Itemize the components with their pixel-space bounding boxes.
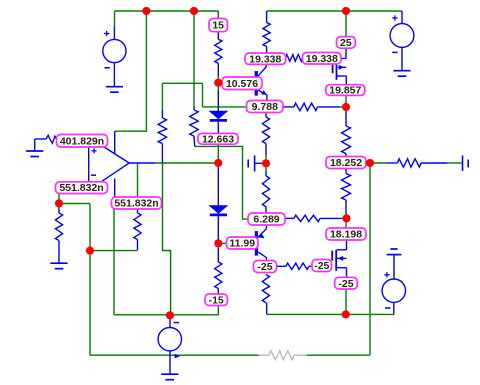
ground V1 bbox=[106, 86, 123, 88]
wire -25 rail right horizontal bbox=[267, 313, 394, 315]
resistor R below 9.788 bbox=[265, 113, 267, 118]
node 6.289 label bbox=[248, 213, 285, 225]
wire -15 rail left horizontal bbox=[114, 314, 218, 316]
wire bridge above op-amp bbox=[162, 82, 202, 84]
node 25 label bbox=[337, 37, 356, 49]
node dot 9 bbox=[342, 214, 350, 222]
svg-text:-25: -25 bbox=[257, 261, 272, 273]
node 19.857 label bbox=[326, 85, 365, 96]
resistor R x=162 (op-amp area) bbox=[161, 110, 163, 118]
node 19.338 label 1 bbox=[245, 53, 286, 64]
op-amp V+ pin bbox=[114, 131, 116, 153]
voltage source V3 bottom-center bbox=[169, 315, 171, 327]
svg-text:18.198: 18.198 bbox=[330, 229, 362, 241]
wire op-amp output bbox=[155, 162, 218, 164]
V4 plus bbox=[384, 274, 389, 276]
wire node A to x=90 bbox=[59, 203, 90, 205]
node dot 2 bbox=[190, 7, 198, 15]
node 9.788 label bbox=[247, 101, 284, 113]
resistor R below -25 #1 bbox=[262, 275, 269, 303]
ground V2 bbox=[393, 70, 410, 72]
wire bottom horizontal right part bbox=[307, 354, 370, 356]
transistor Q2 (PNP mirrored) bbox=[265, 225, 267, 229]
svg-text:401.829n: 401.829n bbox=[60, 135, 104, 147]
wire stub resistor right to node dot x=346 y=107 bbox=[340, 106, 346, 108]
op-amp U1 bbox=[102, 145, 130, 181]
node dot 10 bbox=[55, 199, 63, 207]
resistor R input gnd x=59 bbox=[58, 203, 60, 213]
wire node 10.576 to Q1 base bbox=[218, 82, 254, 84]
svg-text:15: 15 bbox=[212, 20, 224, 32]
node dot 3 bbox=[342, 7, 350, 15]
wire stub resistor to node 18.252 right bbox=[370, 162, 387, 164]
node -15 label bbox=[205, 294, 228, 306]
wire output node down x=137.5 bbox=[137, 163, 139, 197]
ground R input bbox=[50, 262, 67, 264]
resistor R 25-col upper (between 19.857 node and 18.252) bbox=[345, 111, 347, 126]
resistor R column x=346 upper bbox=[345, 48, 347, 58]
wire x=90 vertical bbox=[89, 204, 91, 356]
svg-text:551.832n: 551.832n bbox=[114, 198, 158, 210]
ground V4 (flipped) bbox=[390, 248, 397, 250]
horizontal resistor 9.788 row bbox=[283, 106, 294, 108]
wire stub below -25 to rail bbox=[345, 289, 347, 314]
wire R bottom lead x=194 to 6.289 column bbox=[195, 146, 249, 219]
wire rail drop x=194 bbox=[193, 11, 195, 107]
svg-text:-25: -25 bbox=[338, 278, 353, 290]
svg-text:-25: -25 bbox=[314, 260, 329, 272]
svg-text:25: 25 bbox=[340, 37, 352, 49]
resistor gray (disabled) bottom bbox=[259, 354, 269, 356]
resistor R x=194 bbox=[193, 107, 195, 111]
wire inverting node down to node A bbox=[58, 194, 60, 204]
horizontal resistor 6.289 row bbox=[285, 217, 294, 219]
node 401.829n label (+in) bbox=[57, 135, 108, 148]
node dot 11 bbox=[86, 247, 94, 255]
node dot 5 bbox=[342, 103, 350, 111]
node 18.252 label bbox=[326, 157, 366, 169]
svg-text:19.857: 19.857 bbox=[329, 85, 361, 97]
svg-text:6.289: 6.289 bbox=[253, 214, 279, 226]
wire stub cap node bbox=[265, 156, 267, 160]
V3 polarity arrow bbox=[175, 354, 181, 359]
diode D2 bbox=[217, 168, 219, 206]
wire -15 node stubs bbox=[217, 243, 219, 248]
battery C1 left (node 18.252 cap) bbox=[247, 160, 249, 168]
wire to node 9.788 bbox=[203, 106, 248, 108]
wire x=370 vertical to node 18.252 bbox=[369, 163, 371, 355]
node -25 label 1 bbox=[254, 261, 277, 273]
svg-text:551.832n: 551.832n bbox=[59, 182, 103, 194]
wire node 11.99 to Q2 base bbox=[218, 242, 255, 244]
wire output node down x=162.5 with jog to bottom source bbox=[163, 163, 171, 315]
op-amp minus input bbox=[91, 174, 96, 176]
wire +15 rail drop to op-amp V+ bbox=[145, 11, 147, 131]
svg-text:12.663: 12.663 bbox=[202, 133, 234, 145]
node +15 label bbox=[209, 19, 228, 32]
V4 minus bbox=[385, 307, 390, 309]
node 19.338 label 2 bbox=[303, 53, 342, 65]
transistor Q1 (NPN) bbox=[255, 71, 258, 96]
battery right edge bbox=[462, 156, 464, 172]
node 18.198 label bbox=[326, 228, 366, 240]
node dot 6 bbox=[214, 159, 222, 167]
horizontal resistor 18.252 row bbox=[387, 162, 398, 164]
node 12.663 label bbox=[198, 133, 238, 144]
wire bottom horizontal left part bbox=[90, 354, 259, 356]
node dot 8 bbox=[366, 159, 374, 167]
node 551.832n label 1 (-in) bbox=[56, 182, 108, 194]
svg-text:18.252: 18.252 bbox=[330, 157, 362, 169]
wire top rail right segment bbox=[267, 10, 402, 12]
wire op-amp V- column x=114 bbox=[113, 209, 115, 315]
voltage source V2 top-right bbox=[401, 11, 403, 24]
resistor R top x=266 bbox=[266, 11, 268, 23]
node -25 label 3 bbox=[335, 277, 358, 289]
svg-text:-15: -15 bbox=[209, 294, 224, 306]
svg-text:19.338: 19.338 bbox=[306, 53, 338, 65]
resistor R "-15" column bbox=[217, 248, 219, 262]
V1 plus bbox=[104, 33, 109, 35]
V1 minus bbox=[105, 67, 110, 69]
node dot 12 bbox=[214, 239, 222, 247]
op-amp V- pin bbox=[114, 179, 116, 198]
diode D1 bbox=[217, 90, 219, 111]
resistor R1 zigzag bbox=[215, 39, 222, 63]
ground V3 bbox=[161, 373, 178, 375]
resistor R above 6.289 bbox=[265, 171, 267, 176]
wire node B horizontal bbox=[89, 250, 137, 252]
node dot 1 bbox=[142, 7, 150, 15]
wire stub node 18.252 to dot bbox=[362, 162, 370, 164]
node dot 14 bbox=[166, 311, 174, 319]
wire +25 drop bbox=[345, 11, 347, 37]
node -25 label 2 bbox=[312, 260, 332, 272]
V2 plus bbox=[392, 17, 397, 19]
wire stubs 19.857 column bbox=[345, 95, 347, 111]
voltage source V1 top-left bbox=[113, 26, 115, 39]
resistor R "15" column x=218 bbox=[217, 11, 219, 19]
ground input bbox=[26, 150, 43, 152]
resistor R x=137.5 bbox=[137, 209, 139, 214]
node 10.576 label bbox=[222, 77, 262, 90]
op-amp output lead bbox=[129, 162, 155, 164]
V3 minus bbox=[174, 322, 179, 324]
node 11.99 label bbox=[227, 237, 259, 249]
wire stubs column x=218 bbox=[217, 76, 219, 90]
node dot 13 bbox=[342, 310, 350, 318]
svg-text:10.576: 10.576 bbox=[226, 78, 258, 90]
MOSFET M1 bbox=[337, 57, 346, 59]
V2 minus bbox=[392, 51, 397, 53]
resistor R2 zigzag bbox=[263, 23, 270, 47]
sine squiggle bbox=[46, 135, 57, 143]
node dot 7 bbox=[262, 159, 270, 167]
horizontal resistor -25 row bbox=[277, 265, 287, 267]
svg-text:11.99: 11.99 bbox=[229, 238, 255, 250]
resistor R 25-col lower bbox=[345, 169, 347, 174]
node dot 4 bbox=[214, 79, 222, 87]
node 551.832n label 2 bbox=[112, 197, 162, 209]
op-amp plus input bbox=[92, 150, 97, 152]
svg-text:9.788: 9.788 bbox=[252, 101, 278, 113]
MOSFET M2 bbox=[346, 240, 348, 250]
wire top rail left segment bbox=[115, 10, 219, 12]
svg-text:19.338: 19.338 bbox=[249, 53, 281, 65]
horizontal resistor between 19.338 labels bbox=[286, 55, 303, 62]
